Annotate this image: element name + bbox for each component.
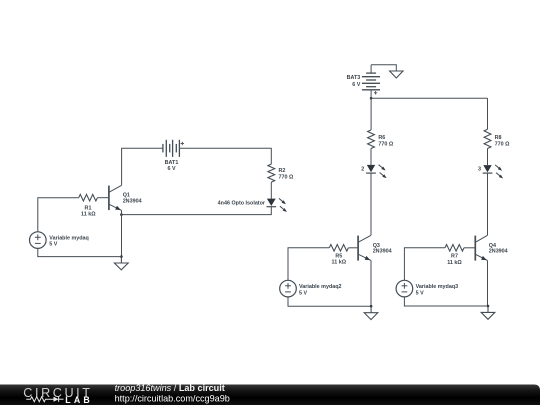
resistor R8: [484, 129, 491, 148]
wire R6 to LED2: [370, 149, 372, 165]
wire V2 to R5: [288, 248, 329, 280]
wire LED3 to Q4 collector: [487, 173, 489, 235]
wire R7 to Q4 base: [464, 247, 475, 249]
svg-text:Variable mydaq3: Variable mydaq3: [416, 284, 459, 290]
transistor Q1: [109, 185, 122, 210]
battery BAT1: [163, 140, 184, 157]
svg-text:R5: R5: [335, 253, 342, 259]
wire V2 bottom to ground node: [288, 297, 371, 306]
svg-text:troop316twins / Lab circuit: troop316twins / Lab circuit: [115, 383, 225, 393]
wire BAT1 to R2: [179, 148, 271, 164]
ground left circuit: [114, 257, 128, 270]
svg-text:4n46 Opto Isolator: 4n46 Opto Isolator: [218, 200, 266, 206]
svg-text:http://circuitlab.com/ccg9a9b: http://circuitlab.com/ccg9a9b: [115, 393, 230, 403]
svg-text:770 Ω: 770 Ω: [378, 141, 393, 147]
wire V3 to R7: [404, 248, 445, 280]
wire Q3 emitter down: [370, 260, 372, 306]
wire V1 top to R1: [38, 198, 79, 232]
voltage source V1 Variable mydaq: [30, 232, 47, 249]
wire R1 to Q1 base: [97, 197, 109, 199]
wire bottom to V1: [38, 248, 122, 256]
svg-text:BAT1: BAT1: [165, 160, 179, 166]
transistor Q3: [358, 235, 371, 260]
LED D1 4n46 opto isolator: [267, 198, 287, 212]
junction emitter node Q1: [120, 213, 123, 216]
wire Q4 emitter down: [487, 260, 489, 306]
svg-text:6 V: 6 V: [167, 166, 175, 172]
LED D2: [366, 165, 387, 179]
logo squiggle resistor and diode: [26, 397, 63, 402]
wire bus to R8: [487, 98, 489, 129]
svg-text:R6: R6: [378, 135, 385, 141]
ground Q3 branch: [364, 306, 378, 319]
voltage source V3 Variable mydaq3: [396, 280, 413, 297]
svg-text:2N3904: 2N3904: [373, 249, 392, 255]
battery BAT3: [362, 65, 380, 99]
wire V3 bottom to ground node: [404, 297, 488, 306]
transistor Q4: [475, 235, 487, 260]
svg-text:5 V: 5 V: [299, 290, 307, 296]
wire Q1 collector up to BAT1: [122, 148, 163, 185]
wire R2 to opto LED: [270, 182, 272, 199]
svg-text:R1: R1: [85, 205, 92, 211]
wire Q1 emitter down: [121, 210, 123, 256]
resistor R7: [445, 245, 464, 252]
wire opto LED to Q1 emitter node: [121, 207, 271, 215]
resistor R2: [268, 164, 275, 182]
svg-text:2: 2: [361, 167, 364, 173]
svg-text:11 kΩ: 11 kΩ: [81, 212, 96, 218]
svg-text:2N3904: 2N3904: [123, 199, 142, 205]
footer bar: [0, 385, 540, 405]
wire top bus to right branch: [371, 97, 487, 99]
wire R8 to LED3: [487, 149, 489, 166]
svg-text:Variable mydaq: Variable mydaq: [49, 235, 89, 241]
svg-text:LAB: LAB: [65, 395, 93, 405]
LED D3: [483, 165, 504, 179]
svg-text:Variable mydaq2: Variable mydaq2: [299, 284, 342, 290]
svg-text:Q1: Q1: [123, 192, 130, 198]
svg-text:11 kΩ: 11 kΩ: [332, 260, 347, 266]
ground BAT3: [390, 71, 403, 78]
wire BAT3 top to ground: [371, 65, 396, 71]
resistor R5: [329, 245, 348, 252]
wire LED2 to Q3 collector: [370, 173, 372, 235]
junction BAT3 bottom node: [370, 97, 373, 100]
ground Q4 branch: [481, 306, 495, 319]
svg-text:5 V: 5 V: [49, 242, 57, 248]
voltage source V2 Variable mydaq2: [280, 280, 297, 297]
svg-text:R8: R8: [495, 135, 502, 141]
resistor R6: [368, 130, 375, 148]
svg-text:11 kΩ: 11 kΩ: [447, 260, 462, 266]
svg-text:R7: R7: [451, 254, 458, 260]
junction Q4 emitter ground node: [487, 305, 490, 308]
svg-text:5 V: 5 V: [416, 290, 424, 296]
svg-text:3: 3: [478, 167, 481, 173]
junction Q3 emitter ground node: [370, 305, 373, 308]
svg-text:BAT3: BAT3: [347, 75, 361, 81]
svg-text:6 V: 6 V: [352, 82, 360, 88]
svg-text:770 Ω: 770 Ω: [495, 141, 510, 147]
wire BAT3 to R6: [370, 98, 372, 130]
svg-text:2N3904: 2N3904: [489, 249, 508, 255]
junction bottom left node: [120, 255, 123, 258]
resistor R1: [79, 194, 98, 201]
wire R5 to Q3 base: [348, 247, 358, 249]
svg-text:R2: R2: [279, 168, 286, 174]
svg-text:770 Ω: 770 Ω: [279, 175, 294, 181]
